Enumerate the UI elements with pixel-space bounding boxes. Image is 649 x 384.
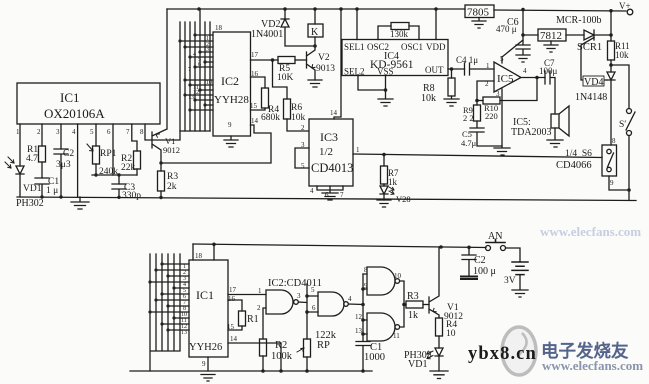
svg-text:18: 18 <box>215 24 223 32</box>
resistor R1 4.7 <box>39 146 46 162</box>
svg-text:2: 2 <box>301 124 305 132</box>
svg-text:3: 3 <box>206 47 209 53</box>
svg-text:SEL1: SEL1 <box>344 42 365 52</box>
svg-text:4: 4 <box>193 52 196 58</box>
svg-text:1: 1 <box>356 146 360 154</box>
svg-text:4.7μ: 4.7μ <box>461 138 477 148</box>
svg-text:SCR1: SCR1 <box>577 42 602 53</box>
relay K <box>314 9 316 24</box>
svg-text:5: 5 <box>301 162 305 170</box>
capacitor C3 330p <box>112 184 126 197</box>
svg-text:1/2: 1/2 <box>319 146 333 158</box>
svg-text:S′: S′ <box>619 120 626 130</box>
svg-text:R3: R3 <box>167 172 178 182</box>
capacitor C2 100u <box>462 247 476 276</box>
svg-text:8: 8 <box>612 137 616 145</box>
svg-text:R2: R2 <box>275 340 287 351</box>
svg-text:10: 10 <box>446 329 456 339</box>
node rail junctions <box>197 7 613 12</box>
wire top power rail <box>167 9 626 11</box>
thyristor SCR1 MCR-100b <box>584 30 611 40</box>
resistor R2 22k <box>134 151 141 169</box>
op-amp IC5 TDA2003 <box>494 62 521 92</box>
node V2 collector <box>271 44 317 62</box>
resistor R2 100k <box>260 339 267 356</box>
wire bottom ground rail <box>130 370 372 372</box>
svg-text:1: 1 <box>486 62 490 70</box>
diode VD2 1N4001 <box>281 9 315 46</box>
svg-text:14: 14 <box>251 117 259 125</box>
svg-text:4: 4 <box>72 128 76 136</box>
svg-text:K: K <box>311 27 319 38</box>
svg-text:7812: 7812 <box>540 30 562 42</box>
svg-text:6: 6 <box>198 62 201 68</box>
wire IC2 pin17 to R5 <box>251 59 279 61</box>
wire R7 branch <box>383 155 385 167</box>
capacitor C6 470u <box>516 10 530 62</box>
svg-text:10k: 10k <box>421 93 436 104</box>
resistor R6 10k <box>284 99 291 119</box>
wire IC1 pin6 <box>112 124 114 175</box>
nand gate G3 <box>367 267 395 295</box>
svg-text:14: 14 <box>330 109 338 117</box>
svg-text:3: 3 <box>56 128 60 136</box>
svg-text:7: 7 <box>126 128 130 136</box>
op IC4 box KD-9561 <box>342 40 448 76</box>
svg-text:R6: R6 <box>291 103 302 113</box>
wire G2 out to bus <box>348 303 363 306</box>
svg-text:V2: V2 <box>318 53 330 63</box>
svg-text:1N4148: 1N4148 <box>575 92 607 103</box>
wire S6 pin9 <box>609 176 629 190</box>
svg-text:RP1: RP1 <box>100 149 117 159</box>
wire SEL2 VSS ground <box>358 76 393 107</box>
svg-text:100k: 100k <box>271 351 293 362</box>
svg-text:100μ: 100μ <box>539 66 558 76</box>
svg-text:220: 220 <box>485 111 498 121</box>
svg-text:240k: 240k <box>99 167 118 177</box>
svg-text:2: 2 <box>37 128 41 136</box>
svg-text:C2: C2 <box>63 149 74 159</box>
svg-text:OSC1: OSC1 <box>401 42 423 52</box>
wire IC1 pin17 to gate1 <box>228 294 266 296</box>
svg-text:CD4066: CD4066 <box>556 160 592 171</box>
wire matrix columns left of IC2 <box>180 9 210 131</box>
svg-text:YYH26: YYH26 <box>189 342 222 353</box>
svg-text:9013: 9013 <box>316 64 335 74</box>
resistor R4 10 <box>436 318 443 336</box>
svg-text:CD4013: CD4013 <box>311 161 353 175</box>
nand gate G1 <box>266 290 293 314</box>
wire G3 G4 outputs join <box>400 281 404 327</box>
svg-text:V28: V28 <box>396 194 411 204</box>
wire R4 to IC2 pin15 <box>251 108 266 110</box>
svg-text:8: 8 <box>364 266 368 274</box>
potentiometer RP 122k <box>304 339 311 357</box>
svg-text:10K: 10K <box>277 73 294 83</box>
capacitor C4 1u <box>465 63 495 75</box>
wire R1 to pin15 <box>228 326 242 330</box>
svg-text:IC3: IC3 <box>320 130 338 144</box>
potentiometer RP1 240k <box>93 146 100 164</box>
svg-text:9: 9 <box>364 282 368 290</box>
wire IC1 left pin stubs <box>150 264 189 330</box>
capacitor C1 1u <box>35 178 49 197</box>
svg-text:9012: 9012 <box>163 145 180 155</box>
svg-text:4: 4 <box>523 67 527 75</box>
wire IC1 pin7 <box>132 124 137 151</box>
svg-text:1/4 S6: 1/4 S6 <box>565 149 592 159</box>
svg-text:www.elecfans.com: www.elecfans.com <box>540 224 641 239</box>
svg-text:C4 1μ: C4 1μ <box>456 55 478 65</box>
wire bottom circuit top rail <box>193 244 486 248</box>
wire IC1 pin8 to V1 base <box>145 124 152 140</box>
svg-text:1k: 1k <box>388 177 398 187</box>
wire bus to G3 inputs <box>363 274 367 289</box>
svg-text:IC1: IC1 <box>196 288 214 302</box>
wire IC2 pin9 ground <box>224 136 238 147</box>
svg-text:IC1: IC1 <box>60 90 80 105</box>
switch S' <box>627 109 632 114</box>
svg-text:3V: 3V <box>504 276 516 286</box>
wire bus to G4 inputs <box>363 320 367 334</box>
svg-text:16: 16 <box>228 295 236 303</box>
svg-text:OUT: OUT <box>425 65 444 75</box>
svg-text:www.elecfans.com: www.elecfans.com <box>542 358 643 373</box>
battery 3V <box>512 262 528 275</box>
wire rail to SEL1 <box>356 9 358 40</box>
wire G2 in6 to RP <box>306 312 308 339</box>
wire rail to R11 <box>610 11 612 41</box>
wire pin5 <box>502 40 523 63</box>
wire matrix columns bottom <box>150 254 180 371</box>
svg-text:15: 15 <box>250 102 258 110</box>
regulator 7812 <box>538 29 566 41</box>
wire IC1 pin5 <box>95 124 97 146</box>
svg-text:6: 6 <box>312 304 316 312</box>
resistor R1 bottom <box>239 311 246 326</box>
transistor V1 9012 bottom <box>429 247 439 318</box>
ground main <box>71 197 89 209</box>
wire matrix bottom to V1 base <box>152 131 210 140</box>
svg-text:4: 4 <box>310 187 314 195</box>
nand gate G4 <box>367 313 395 341</box>
wire IC2 left pin stubs <box>180 35 213 110</box>
svg-text:1 μ: 1 μ <box>46 186 58 196</box>
svg-text:6: 6 <box>325 191 329 199</box>
wire feedback V1/R3 to IC2 pin14 <box>161 125 271 163</box>
svg-text:2 2: 2 2 <box>463 113 474 123</box>
LED VD1 PH303 <box>435 348 443 371</box>
node R7 branch <box>382 153 386 157</box>
LED VD8 <box>380 186 388 200</box>
wire IC1 pin2 <box>41 124 43 146</box>
junction dots left circuit <box>40 161 162 199</box>
wire AN to battery <box>506 248 521 262</box>
pushbutton AN <box>486 246 491 251</box>
svg-text:13: 13 <box>181 330 187 336</box>
svg-text:10k: 10k <box>291 113 306 123</box>
svg-text:9: 9 <box>202 360 206 368</box>
svg-text:VD4: VD4 <box>584 77 603 88</box>
svg-text:1000: 1000 <box>364 352 385 363</box>
wire R11 node to switch S <box>611 65 629 109</box>
terminal V+ <box>627 9 633 15</box>
svg-text:17: 17 <box>229 286 237 294</box>
ground VD1 <box>430 371 448 379</box>
speaker <box>551 114 559 128</box>
svg-text:C2: C2 <box>474 255 486 266</box>
resistor R4 680k <box>262 88 269 108</box>
wire pin17 node to R6 <box>273 60 288 99</box>
ground VD8 <box>377 200 391 207</box>
svg-text:17: 17 <box>251 51 259 59</box>
resistor R5 10K <box>278 57 295 64</box>
svg-text:22k: 22k <box>121 163 136 173</box>
svg-text:4.7: 4.7 <box>26 154 38 164</box>
svg-text:YYH28: YYH28 <box>214 94 249 106</box>
nand gate G2 <box>318 292 344 316</box>
wire pin4 out <box>521 77 545 79</box>
svg-text:SEL2: SEL2 <box>344 67 365 77</box>
transistor V2 9013 <box>307 46 316 80</box>
svg-text:15: 15 <box>227 323 235 331</box>
svg-text:VSS: VSS <box>377 67 394 77</box>
wire IC1 pin16 to R1 <box>228 300 242 311</box>
logo circle <box>502 327 536 375</box>
svg-text:10: 10 <box>394 272 402 280</box>
svg-text:9: 9 <box>228 121 232 129</box>
svg-text:OX20106A: OX20106A <box>44 106 105 121</box>
svg-text:6: 6 <box>107 128 111 136</box>
resistor 130k <box>391 23 409 30</box>
svg-text:V+: V+ <box>619 1 631 11</box>
resistor R9 2.2 <box>474 105 481 121</box>
svg-text:ybx8.cn: ybx8.cn <box>468 344 537 364</box>
wire IC1 pin3 <box>60 124 62 149</box>
wire rail to IC3 pin14 <box>334 9 341 119</box>
svg-text:3: 3 <box>496 90 500 98</box>
wire 130k loop <box>378 26 419 40</box>
resistor R10 220 <box>477 100 483 102</box>
wire net pin6/RP1/R2/C3 <box>92 175 137 184</box>
svg-text:AN: AN <box>488 231 502 242</box>
svg-text:13: 13 <box>355 327 363 335</box>
svg-text:7805: 7805 <box>467 7 490 19</box>
node matrix dots <box>178 33 206 111</box>
svg-text:18: 18 <box>195 252 203 260</box>
analog switch S6 box <box>602 145 617 176</box>
wire IC1 pin1 <box>19 124 21 166</box>
svg-text:1N4001: 1N4001 <box>251 29 283 40</box>
svg-text:5: 5 <box>90 128 94 136</box>
wire ground rail top circuit <box>17 197 636 201</box>
svg-text:2k: 2k <box>167 182 177 192</box>
wire IC1 pin9 to ground <box>201 357 215 381</box>
op IC2 box YYH28 <box>213 32 251 136</box>
wire IC3 pins3-5 loop <box>295 148 309 168</box>
svg-text:4: 4 <box>348 295 352 303</box>
svg-text:9: 9 <box>610 179 614 187</box>
svg-text:2: 2 <box>257 304 261 312</box>
capacitor C7 100u <box>545 71 555 114</box>
wire SCR gate <box>581 38 607 81</box>
wire IC3 pin1 to CD4066 S6 <box>353 154 602 158</box>
wire R6 to IC3 pin2 <box>287 119 308 131</box>
regulator 7805 <box>465 5 494 18</box>
svg-text:2: 2 <box>485 80 489 88</box>
svg-text:14: 14 <box>230 335 238 343</box>
wire IC3 bottom pins ground <box>317 186 343 200</box>
wire OUT <box>448 68 465 70</box>
svg-text:130k: 130k <box>390 29 409 39</box>
wire pin3 to ground <box>494 89 510 155</box>
svg-text:VD1: VD1 <box>408 359 427 370</box>
svg-text:680k: 680k <box>261 113 280 123</box>
wire C6 node to 7812 <box>523 34 538 36</box>
wire IC1 pin14 down <box>228 343 281 371</box>
resistor R8 10k <box>451 69 453 78</box>
svg-text:1: 1 <box>258 287 262 295</box>
capacitor C1 1000 <box>356 342 370 372</box>
svg-text:RP: RP <box>317 340 330 351</box>
svg-text:1k: 1k <box>408 310 418 321</box>
svg-text:7: 7 <box>340 191 344 199</box>
wire IC2 pin16 to R4 <box>251 77 266 88</box>
svg-text:MCR-100b: MCR-100b <box>556 15 602 26</box>
svg-text:470 μ: 470 μ <box>496 24 517 34</box>
wire rail to VDD <box>435 9 437 40</box>
svg-text:7: 7 <box>188 67 191 73</box>
svg-text:TDA2003: TDA2003 <box>511 127 552 138</box>
wire G1 in2 to R2 <box>263 308 266 339</box>
svg-text:PH302: PH302 <box>16 198 44 209</box>
svg-text:IC5: IC5 <box>497 73 514 85</box>
svg-text:R3: R3 <box>407 291 419 302</box>
op IC1 box YYH26 <box>189 260 228 357</box>
svg-text:R1: R1 <box>247 314 259 325</box>
svg-text:11: 11 <box>393 332 400 340</box>
svg-text:10k: 10k <box>615 50 629 60</box>
resistor R3 1k bottom <box>404 304 406 306</box>
svg-text:12: 12 <box>355 313 363 321</box>
node matrix dots bottom <box>148 262 175 331</box>
svg-text:330p: 330p <box>122 191 141 201</box>
wire pin2 loop <box>477 81 494 105</box>
svg-text:5: 5 <box>500 55 504 63</box>
svg-text:3μ3: 3μ3 <box>56 160 71 170</box>
resistor R11 10k <box>608 41 615 60</box>
svg-text:8: 8 <box>140 128 144 136</box>
svg-text:3: 3 <box>301 141 305 149</box>
svg-text:5: 5 <box>311 286 315 294</box>
wire G1 out to G2 <box>298 284 318 312</box>
wire gate bus vertical <box>362 274 364 341</box>
resistor R3 2k <box>158 171 165 191</box>
wire IC1 pin4 to ground <box>77 124 79 197</box>
capacitor C5 4.7u <box>470 121 502 146</box>
svg-text:100 μ: 100 μ <box>473 266 496 277</box>
svg-text:16: 16 <box>251 70 259 78</box>
svg-text:3: 3 <box>297 292 301 300</box>
svg-text:VDD: VDD <box>426 42 446 52</box>
svg-text:VD1: VD1 <box>23 184 42 194</box>
transistor V1 9012 <box>152 9 167 171</box>
op IC3 box CD4013 <box>309 119 353 186</box>
capacitor C2 3u3 <box>54 149 68 197</box>
wire pin18 stub <box>193 244 214 260</box>
ground V2 emitter <box>308 80 322 87</box>
diode VD4 1N4148 <box>607 72 615 145</box>
op IC1 box OX20106A <box>17 83 160 124</box>
wire 7812 out <box>566 34 584 36</box>
resistor R7 1k <box>381 166 388 184</box>
svg-text:10: 10 <box>206 80 212 86</box>
label box VD4 <box>583 76 604 86</box>
svg-text:13: 13 <box>188 95 194 101</box>
ground R8 <box>444 96 459 106</box>
photodiode VD1 PH302 <box>16 166 24 197</box>
svg-text:IC2: IC2 <box>221 74 239 88</box>
